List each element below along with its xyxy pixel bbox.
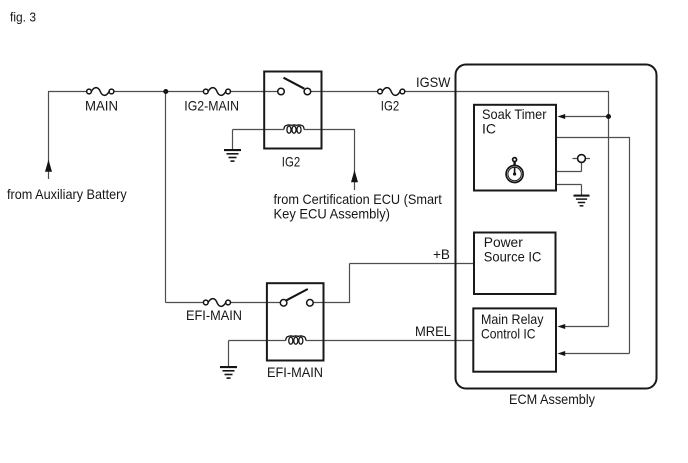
svg-text:fig. 3: fig. 3 xyxy=(10,10,36,25)
svg-text:IG2-MAIN: IG2-MAIN xyxy=(184,98,239,114)
svg-text:Source IC: Source IC xyxy=(484,248,542,264)
svg-text:+B: +B xyxy=(433,246,450,262)
svg-text:from Auxiliary Battery: from Auxiliary Battery xyxy=(7,186,127,202)
svg-text:Control IC: Control IC xyxy=(481,326,536,342)
svg-text:EFI-MAIN: EFI-MAIN xyxy=(186,307,242,323)
svg-text:MAIN: MAIN xyxy=(85,98,118,114)
svg-text:ECM Assembly: ECM Assembly xyxy=(509,391,595,407)
svg-text:IG2: IG2 xyxy=(282,154,301,170)
svg-text:Key ECU Assembly): Key ECU Assembly) xyxy=(274,205,391,221)
svg-text:IC: IC xyxy=(482,121,496,137)
svg-text:MREL: MREL xyxy=(415,323,451,339)
svg-text:IG2: IG2 xyxy=(381,98,400,114)
svg-text:IGSW: IGSW xyxy=(416,74,451,90)
svg-text:EFI-MAIN: EFI-MAIN xyxy=(267,364,323,380)
